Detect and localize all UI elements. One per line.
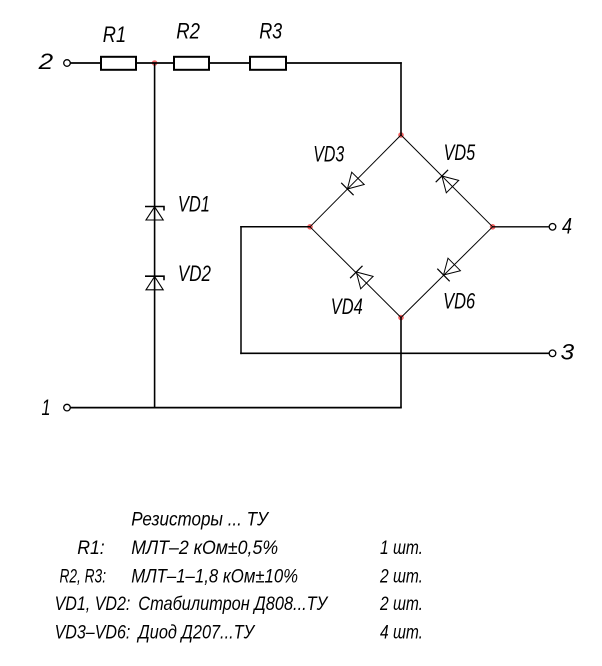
node top of bridge bbox=[398, 132, 404, 138]
resistor R3 bbox=[250, 57, 286, 70]
terminal 4 bbox=[549, 224, 556, 231]
wire bridge edge top-left bbox=[310, 135, 401, 227]
svg-text:VD4: VD4 bbox=[331, 294, 363, 319]
wire bridge edge bottom-right bbox=[401, 227, 493, 318]
diode VD6 bbox=[437, 258, 460, 281]
terminal 3 bbox=[549, 350, 556, 357]
zener VD2 cathode bar with hook bbox=[145, 276, 164, 280]
svg-text:VD1: VD1 bbox=[178, 192, 210, 217]
svg-text:Диод Д207...ТУ: Диод Д207...ТУ bbox=[137, 621, 256, 643]
svg-text:VD3: VD3 bbox=[313, 142, 345, 167]
svg-text:1 шт.: 1 шт. bbox=[380, 537, 423, 559]
wire top corner down to bridge top node bbox=[400, 62, 402, 135]
svg-text:VD6: VD6 bbox=[443, 289, 476, 314]
svg-text:3: 3 bbox=[561, 339, 576, 364]
svg-text:МЛТ–1–1,8 кОм±10%: МЛТ–1–1,8 кОм±10% bbox=[131, 565, 298, 587]
svg-text:VD1, VD2:: VD1, VD2: bbox=[55, 593, 131, 615]
node bottom of bridge bbox=[398, 315, 404, 321]
terminal 1 bbox=[64, 404, 71, 411]
wire bridge edge top-right bbox=[401, 135, 493, 227]
svg-text:2 шт.: 2 шт. bbox=[379, 593, 423, 615]
wire left branch to terminal 3 bbox=[240, 352, 549, 354]
terminal 2 bbox=[64, 60, 71, 67]
resistor R2 bbox=[174, 57, 209, 70]
svg-text:R1:: R1: bbox=[77, 537, 105, 559]
wire branch from R1-R2 junction down to terminal 1 rail bbox=[154, 63, 156, 408]
zener VD2 triangle bbox=[146, 277, 163, 290]
wire bridge bottom node down to terminal 1 rail bbox=[400, 318, 402, 408]
svg-text:Резисторы ... ТУ: Резисторы ... ТУ bbox=[131, 508, 270, 530]
wire left branch vertical bbox=[240, 226, 242, 354]
diode VD4 bbox=[350, 266, 373, 289]
svg-text:VD5: VD5 bbox=[444, 140, 476, 165]
wire R1 to R2 bbox=[137, 62, 174, 64]
svg-text:4 шт.: 4 шт. bbox=[380, 621, 423, 643]
wire terminal 1 rail bbox=[70, 407, 401, 409]
svg-text:VD3–VD6:: VD3–VD6: bbox=[55, 621, 131, 643]
diode VD5 bbox=[436, 170, 459, 193]
svg-text:Стабилитрон Д808...ТУ: Стабилитрон Д808...ТУ bbox=[138, 593, 329, 615]
node left of bridge bbox=[307, 224, 313, 230]
svg-text:МЛТ–2 кОм±0,5%: МЛТ–2 кОм±0,5% bbox=[131, 537, 278, 559]
svg-text:1: 1 bbox=[42, 395, 51, 420]
svg-text:VD2: VD2 bbox=[178, 261, 211, 286]
diode VD3 bbox=[341, 172, 364, 195]
svg-text:R2, R3:: R2, R3: bbox=[60, 565, 107, 587]
svg-text:R2: R2 bbox=[176, 19, 200, 44]
svg-text:2 шт.: 2 шт. bbox=[379, 565, 423, 587]
wire bridge edge bottom-left bbox=[310, 227, 401, 318]
node right of bridge bbox=[490, 224, 496, 230]
node junction dot at R1-R2 branch bbox=[152, 60, 158, 66]
zener VD1 cathode bar with hook bbox=[145, 207, 164, 211]
svg-text:4: 4 bbox=[562, 214, 572, 239]
svg-text:2: 2 bbox=[37, 49, 53, 74]
wire R3 to top corner bbox=[287, 62, 402, 64]
zener VD1 triangle bbox=[146, 207, 163, 220]
svg-text:R1: R1 bbox=[103, 22, 126, 47]
wire R2 to R3 bbox=[210, 62, 250, 64]
svg-text:R3: R3 bbox=[259, 19, 283, 44]
resistor R1 bbox=[101, 57, 136, 70]
wire terminal 2 to R1 bbox=[70, 62, 100, 64]
wire bridge left node going left bbox=[240, 226, 310, 228]
wire bridge right node to terminal 4 bbox=[493, 226, 550, 228]
